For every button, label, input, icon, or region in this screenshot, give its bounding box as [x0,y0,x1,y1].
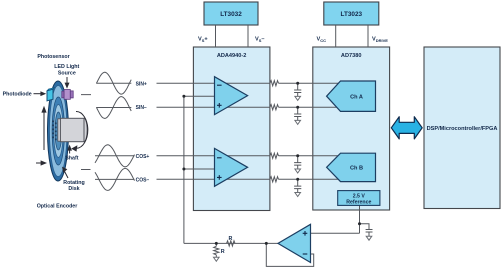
svg-text:SIN+: SIN+ [136,81,147,87]
svg-text:LT3032: LT3032 [220,11,242,18]
svg-text:Photosensor: Photosensor [37,54,69,60]
svg-text:VS+: VS+ [198,37,208,43]
svg-text:COS+: COS+ [136,154,150,160]
svg-text:Shaft: Shaft [65,156,78,162]
svg-text:VDRIVE: VDRIVE [372,37,388,43]
svg-text:R: R [229,236,233,242]
svg-text:Optical Encoder: Optical Encoder [37,204,78,210]
svg-text:Reference: Reference [346,200,371,206]
svg-text:Source: Source [58,71,76,77]
svg-text:Disk: Disk [68,186,79,192]
svg-text:SIN–: SIN– [136,105,147,111]
svg-text:Photodiode: Photodiode [3,92,32,98]
svg-text:LT3023: LT3023 [341,11,363,18]
svg-text:COS–: COS– [136,178,150,184]
svg-text:AD7380: AD7380 [341,53,362,59]
svg-text:R: R [221,249,225,255]
svg-text:DSP/Microcontroller/FPGA: DSP/Microcontroller/FPGA [427,126,498,132]
svg-text:Ch A: Ch A [350,94,363,100]
svg-text:2.5 V: 2.5 V [353,193,366,199]
svg-text:VS–: VS– [255,37,265,43]
svg-text:ADA4940-2: ADA4940-2 [217,53,247,59]
svg-text:VCC: VCC [317,37,327,43]
svg-text:Rotating: Rotating [63,180,84,186]
svg-text:Ch B: Ch B [350,165,363,171]
svg-text:LED Light: LED Light [54,64,79,70]
